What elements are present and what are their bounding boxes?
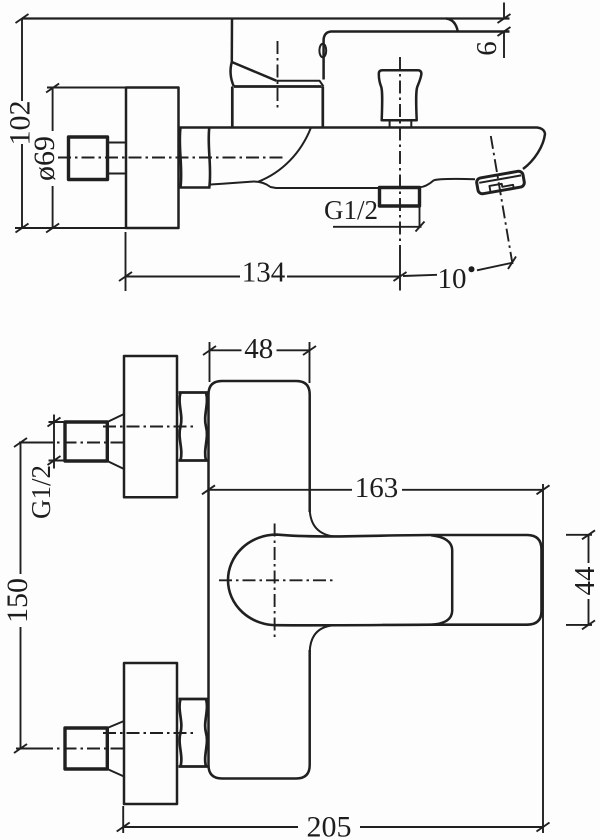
svg-text:134: 134 <box>242 257 286 289</box>
dimension 205 <box>117 806 550 833</box>
valve crosshair horizontal <box>219 579 334 581</box>
bottom inlet centerline <box>16 748 46 750</box>
svg-text:163: 163 <box>355 472 399 504</box>
svg-text:205: 205 <box>307 811 352 840</box>
svg-text:10: 10 <box>438 263 467 295</box>
dimension 6 <box>498 3 511 59</box>
dimension 150 <box>14 438 27 753</box>
top hex nut (front) <box>179 393 209 461</box>
handle pivot pin ellipse <box>319 44 326 58</box>
dimension 48 <box>203 342 316 383</box>
bottom hex nut (front) <box>179 699 209 767</box>
mounting column <box>209 381 310 779</box>
svg-text:48: 48 <box>244 333 273 365</box>
svg-text:6: 6 <box>471 41 503 56</box>
lever handle outline <box>324 32 510 80</box>
body bottom edge right of port <box>420 179 476 187</box>
dimension ø69 line <box>46 84 59 233</box>
svg-text:G1/2: G1/2 <box>26 465 56 519</box>
handle left edge <box>231 19 234 63</box>
body top line with rounded right end <box>211 128 546 170</box>
knob / port centerline (vertical dash-dot) <box>399 57 401 253</box>
spout root concave curve <box>258 128 311 182</box>
svg-text:150: 150 <box>1 578 34 623</box>
top wall escutcheon (front) <box>124 356 177 497</box>
top escutcheon/nut centerline <box>103 426 197 428</box>
body centerline (horizontal dash-dot) <box>58 157 285 159</box>
svg-text:G1/2: G1/2 <box>324 195 378 225</box>
column to bar fillet (upper) <box>310 509 334 537</box>
body end-cap separation line <box>431 535 452 625</box>
knob neck <box>390 120 412 127</box>
shower outlet port G1/2 <box>380 188 420 207</box>
body bottom edge left of port <box>211 182 380 188</box>
bottom escutcheon/nut centerline <box>103 732 197 734</box>
dimension 163 <box>202 485 550 494</box>
column to bar fillet (lower) <box>310 625 334 652</box>
top inlet cone <box>107 414 124 469</box>
top inlet thread block <box>65 422 107 461</box>
top inlet centerline <box>19 442 46 444</box>
handle bottom line and step <box>276 81 323 87</box>
dimension 44 <box>566 530 595 629</box>
134 right extension <box>399 253 401 291</box>
diverter knob <box>379 70 422 120</box>
aerator <box>476 171 525 195</box>
cartridge collar <box>232 87 322 128</box>
handle top surface line + 102 extension + 6 extension <box>22 17 510 19</box>
hex nut (side view) <box>180 128 211 188</box>
svg-text:44: 44 <box>569 566 600 596</box>
handle right-end curve <box>446 19 458 32</box>
valve crosshair vertical <box>274 524 276 638</box>
bottom inlet thread block <box>65 728 107 769</box>
extension line escutcheon top <box>47 87 126 89</box>
dimension 134 <box>119 232 407 291</box>
wall escutcheon (side view) <box>126 88 179 229</box>
svg-text:ø69: ø69 <box>28 136 61 181</box>
right long extension line <box>542 484 544 833</box>
dimension G1/2 (bottom figure) <box>48 415 67 469</box>
port leader line <box>333 207 425 232</box>
extension line escutcheon bottom <box>15 227 128 229</box>
angle dimension 10deg <box>403 257 516 277</box>
bottom inlet cone <box>107 721 124 777</box>
G1/2 male thread block (side view) <box>69 137 108 180</box>
faucet body bar with left dome end <box>228 535 542 626</box>
thread connector sleeve <box>108 143 127 174</box>
handle front arc <box>231 62 234 86</box>
handle centerline (vertical dash-dot) <box>277 41 279 110</box>
bottom wall escutcheon (front) <box>124 663 177 804</box>
dimension 102 line <box>16 14 29 233</box>
aerator axis (10 deg dash-dot) <box>491 136 513 264</box>
handle lower slant <box>232 62 276 81</box>
